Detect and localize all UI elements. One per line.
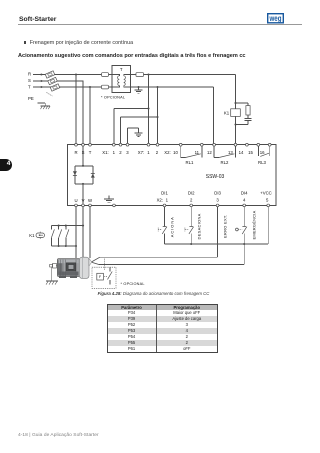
bold heading <box>18 53 246 59</box>
table <box>107 304 219 354</box>
wire fuse mechanical link <box>47 93 53 97</box>
node terminal 16 <box>268 143 271 146</box>
svg-text:12: 12 <box>207 150 212 155</box>
svg-text:R: R <box>28 72 31 77</box>
svg-text:5: 5 <box>266 197 269 202</box>
transformer T primary winding <box>118 76 120 86</box>
svg-text:EMERGÊNCIA: EMERGÊNCIA <box>251 210 256 239</box>
svg-text:1: 1 <box>166 197 169 202</box>
fuse F3 secondary <box>136 73 144 77</box>
node junction dots <box>75 73 77 75</box>
motor M1 terminal box <box>66 263 76 271</box>
wire slant joins to shaft tip <box>92 257 100 264</box>
wire T phase drop <box>89 87 91 144</box>
node terminal X2-4 <box>243 204 246 207</box>
transformer T secondary winding <box>124 76 126 86</box>
svg-text:ERRO EXT.: ERRO EXT. <box>223 214 228 238</box>
svg-text:F: F <box>99 275 101 279</box>
motor M1 drive-end housing <box>79 257 89 278</box>
wire S feed line <box>33 81 83 144</box>
wire RL1 terminal stubs <box>181 146 202 158</box>
wire snubber branch <box>236 103 252 125</box>
pushbutton S2 DESACIONA contact <box>189 227 194 234</box>
node terminal X1-2 <box>119 143 122 146</box>
node terminal V <box>82 204 85 207</box>
ground PE hatches <box>41 106 51 109</box>
ground motor earth hatches <box>46 281 57 285</box>
connector motor plug <box>50 263 58 268</box>
svg-text:X7:: X7: <box>138 150 144 155</box>
svg-text:DI4: DI4 <box>241 190 248 195</box>
wire RL2 terminal stubs <box>214 146 235 158</box>
svg-text:S: S <box>28 78 31 83</box>
svg-text:DI1: DI1 <box>161 190 168 195</box>
relay coil K1 <box>231 109 241 117</box>
svg-text:4: 4 <box>243 197 246 202</box>
svg-text:V: V <box>82 198 85 203</box>
wire T feed line <box>33 86 112 88</box>
node terminal X1-1 <box>112 143 115 146</box>
svg-text:U: U <box>74 198 77 203</box>
node terminal PE-int <box>113 204 116 207</box>
thyristor up diode <box>91 174 95 178</box>
relay contact RL2 blade <box>219 154 234 158</box>
svg-text:13: 13 <box>228 150 233 155</box>
svg-text:SSW-03: SSW-03 <box>206 174 225 180</box>
node terminal R <box>75 143 78 146</box>
motor M1 feet <box>59 276 66 278</box>
pushbutton S3 EMERGENCIA mushroom head <box>236 228 239 231</box>
wire VCC branch to centrifugal switch <box>99 244 244 265</box>
svg-text:PE: PE <box>28 96 34 101</box>
svg-text:2: 2 <box>156 150 159 155</box>
node terminal 10 <box>179 143 182 146</box>
node terminal X2-3 <box>216 204 219 207</box>
svg-text:16: 16 <box>260 150 265 155</box>
soft-starter U1 SSW-03 enclosure <box>68 145 277 206</box>
contactor K1 actuator symbol <box>36 233 45 238</box>
svg-text:2: 2 <box>119 150 122 155</box>
header title <box>19 16 56 23</box>
svg-text:1: 1 <box>113 150 116 155</box>
ground X1:3 earth bars <box>135 133 143 136</box>
wire X7:2 vertical <box>157 87 159 144</box>
header rule <box>18 23 302 26</box>
ground PE earth bar <box>40 105 50 107</box>
svg-text:3: 3 <box>126 150 129 155</box>
svg-text:R: R <box>74 150 77 155</box>
svg-text:* OPCIONAL: * OPCIONAL <box>121 282 145 286</box>
relay contact RL1 blade <box>186 154 201 158</box>
svg-text:DI3: DI3 <box>214 190 221 195</box>
motor M1 fins <box>61 260 77 277</box>
fuse F1 transformer primary top <box>102 73 109 77</box>
wire centrifugal switch stubs <box>109 267 111 284</box>
wire transformer primary connections <box>112 75 119 88</box>
thyristor pair frame <box>75 146 93 205</box>
wire W phase drop to motor <box>89 207 91 258</box>
node terminal 12 <box>213 143 216 146</box>
svg-text:2: 2 <box>190 197 193 202</box>
wire K1 bottom bus <box>51 245 76 247</box>
wire transformer secondary connections <box>124 75 139 88</box>
node terminal T <box>89 143 92 146</box>
svg-text:K1: K1 <box>224 111 230 116</box>
wire VCC bus <box>165 207 269 244</box>
svg-text:* OPCIONAL: * OPCIONAL <box>101 96 125 100</box>
pushbutton S1 ACIONA contact <box>162 227 167 234</box>
svg-text:K1: K1 <box>29 233 35 238</box>
wire V phase drop to motor <box>82 207 84 258</box>
svg-text:15: 15 <box>248 150 253 155</box>
wire X1:1 jumper to X7:1 <box>114 109 149 144</box>
fuse Q1 S-phase disconnect <box>48 77 58 84</box>
node terminal 13 <box>234 143 237 146</box>
svg-text:1: 1 <box>147 150 150 155</box>
svg-text:X1:: X1: <box>102 150 108 155</box>
node terminal 15 <box>257 143 260 146</box>
fuse Q1 R-phase disconnect <box>45 71 55 78</box>
svg-text:ACIONA: ACIONA <box>169 216 174 237</box>
svg-text:T: T <box>89 150 92 155</box>
svg-text:14: 14 <box>239 150 244 155</box>
chapter tab <box>0 159 12 171</box>
contactor contact K1 blades <box>51 229 69 238</box>
svg-text:T: T <box>120 67 123 72</box>
wire R feed line <box>33 74 112 76</box>
switch centrifugal blade <box>108 272 113 280</box>
fuse F2 transformer primary bottom <box>102 85 109 89</box>
wire DI1 branch <box>164 207 166 244</box>
node terminal X7-1 <box>147 143 150 146</box>
svg-text:DI2: DI2 <box>188 190 195 195</box>
wire motor earth lead <box>46 267 58 281</box>
optional centrifugal switch enclosure (dashed) <box>92 267 116 288</box>
wire U phase drop to motor <box>75 207 77 258</box>
node supply arrows <box>41 73 44 88</box>
thyristor down diode <box>73 171 77 175</box>
svg-text:T: T <box>28 85 31 90</box>
svg-text:10: 10 <box>173 150 178 155</box>
node terminal W <box>89 204 92 207</box>
svg-text:+VCC: +VCC <box>260 190 272 195</box>
wire X1:3 to earth <box>128 128 139 144</box>
caption <box>0 291 307 296</box>
bullet item <box>24 41 27 44</box>
node terminal X2-5 <box>267 204 270 207</box>
fuse Q1 T-phase disconnect <box>50 84 60 91</box>
wire DI4 branch <box>243 207 245 244</box>
wire DI2 branch <box>190 207 192 244</box>
ground secondary stub and bars <box>135 87 143 93</box>
footer <box>18 433 99 438</box>
wire mechanical link to switch <box>104 276 107 278</box>
node terminal X1-3 <box>126 143 129 146</box>
node terminal U <box>75 204 78 207</box>
motor M1 shaft cone <box>89 258 92 266</box>
relay contact RL3 blade <box>260 153 269 156</box>
wire R phase drop <box>75 75 77 144</box>
wire DI3 to centrifugal switch <box>100 207 218 258</box>
ground internal chassis <box>104 195 114 202</box>
motor M1 body <box>57 259 80 277</box>
wire secondary return to terminal 12 <box>139 87 214 144</box>
wire PE lead <box>38 103 46 106</box>
wire secondary hot to K1 <box>144 75 236 104</box>
wire shaft link dashes <box>104 259 106 270</box>
svg-text:RL3: RL3 <box>258 160 266 165</box>
svg-text:11: 11 <box>195 150 200 155</box>
pushbutton S3 EMERGENCIA contact <box>242 227 247 235</box>
wire K1 contact stubs <box>51 226 66 246</box>
wire K1 coil leads <box>235 103 237 144</box>
svg-text:X2:: X2: <box>157 197 163 202</box>
svg-text:3: 3 <box>216 197 219 202</box>
node terminal 14 <box>246 143 249 146</box>
wire X7:1 vertical <box>148 75 150 144</box>
resistor snubber R <box>246 106 250 115</box>
node terminal S <box>82 143 85 146</box>
node terminal 11 <box>200 143 203 146</box>
node terminal X2-2 <box>190 204 193 207</box>
wire RL3 terminal stubs <box>258 146 269 157</box>
load F flywheel box <box>97 273 104 280</box>
svg-text:DESACIONA: DESACIONA <box>197 213 202 239</box>
svg-text:W: W <box>88 198 93 203</box>
svg-text:S: S <box>82 150 85 155</box>
transformer T enclosure <box>112 66 131 93</box>
node terminal X2-1 <box>163 204 166 207</box>
svg-text:RL2: RL2 <box>221 160 229 165</box>
wire K1 top bus <box>51 225 83 227</box>
svg-text:X2:: X2: <box>164 150 170 155</box>
node terminal X7-2 <box>156 143 159 146</box>
svg-text:RL1: RL1 <box>186 160 194 165</box>
WEG logo <box>267 13 284 24</box>
wire X1:2 jumper to X7:2 <box>121 117 158 144</box>
